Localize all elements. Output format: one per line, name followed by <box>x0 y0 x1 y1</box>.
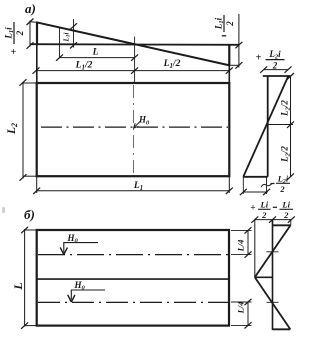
small dimension L1i extension line <box>59 28 61 58</box>
zigzag diagonal 1 <box>255 225 291 277</box>
label L/4 upper rotated <box>236 240 246 253</box>
horizontal centreline of panel a <box>41 126 228 128</box>
svg-text:L2/2: L2/2 <box>280 146 292 163</box>
label -L2i/2 <box>271 174 291 194</box>
svg-text:2: 2 <box>261 210 267 220</box>
extension left vertical down to panel <box>36 45 38 83</box>
right diagram bottom edge <box>243 176 267 178</box>
svg-text:2: 2 <box>15 30 25 36</box>
svg-text:2: 2 <box>225 21 235 27</box>
zigzag top edge <box>273 224 291 226</box>
zigzag right extension <box>290 220 292 226</box>
right diagram top edge <box>263 75 291 77</box>
svg-text:+: + <box>256 53 262 64</box>
label +L1i/2 rotated left <box>4 22 26 58</box>
svg-text:L1i: L1i <box>4 27 16 40</box>
panel rectangle b <box>37 230 229 326</box>
svg-text:Li: Li <box>281 200 290 210</box>
zigzag vertical axis <box>272 220 274 330</box>
panel rectangle a <box>37 83 230 176</box>
dimension line right of diagram a <box>235 14 242 69</box>
zigzag bottom edge <box>273 328 291 330</box>
svg-text:L1/2: L1/2 <box>75 61 93 72</box>
svg-text:L1i: L1i <box>63 32 72 42</box>
right extension lines of panel b <box>231 230 252 325</box>
label +L2i/2 top of right diagram <box>256 49 285 71</box>
svg-text:L/4: L/4 <box>236 240 246 253</box>
label L2/2 upper rotated <box>280 100 292 117</box>
label +Li/2 - Li/2 <box>250 200 293 220</box>
zigzag left vertical line <box>254 220 256 278</box>
dimension line L <box>56 54 138 60</box>
svg-text:L2: L2 <box>6 123 19 135</box>
zigzag middle horizontal <box>255 276 273 278</box>
label L1i rotated small <box>63 32 72 42</box>
zigzag diagonal 2 <box>255 277 290 329</box>
diagram a right vertical edge <box>228 44 230 65</box>
squiggle leader <box>261 184 272 188</box>
svg-text:L: L <box>92 48 99 58</box>
zigzag cross tick 2 <box>267 301 279 303</box>
small dimension L1i line with ticks <box>70 19 77 49</box>
middle solid line <box>37 278 229 280</box>
svg-text:L: L <box>11 282 25 290</box>
label L2/2 lower rotated <box>280 146 292 163</box>
dimension line L1/2 L1/2 <box>33 67 233 73</box>
vertical centreline of panel a <box>132 85 134 176</box>
dimension line L1 below panel a <box>33 188 233 194</box>
svg-text:L1: L1 <box>133 181 143 192</box>
svg-text:Li: Li <box>260 200 269 210</box>
leader arrow lower <box>68 290 105 302</box>
top dimension line of zigzag diagram <box>251 216 294 222</box>
svg-text:2: 2 <box>272 61 278 71</box>
extension right vertical down to panel <box>228 66 230 84</box>
leader arrow to centre <box>134 122 140 129</box>
zigzag cross tick 1 <box>267 251 279 253</box>
label -L1i/2 rotated right <box>214 15 236 36</box>
svg-text:H0: H0 <box>138 115 150 127</box>
quarter centreline 2 dash-dot <box>38 301 228 303</box>
bottom dimension line of right diagram <box>240 177 270 195</box>
short horizontal at right end bottom <box>229 64 239 66</box>
svg-text:L2i: L2i <box>268 49 281 61</box>
svg-text:L1/2: L1/2 <box>163 59 181 70</box>
right diagram middle tick line <box>268 124 293 126</box>
svg-text:а): а) <box>25 1 36 16</box>
dimension line left of diagram a <box>27 19 34 49</box>
svg-text:2: 2 <box>279 184 285 194</box>
right diagram side dimension line <box>287 73 294 180</box>
leader arrow upper <box>60 243 98 255</box>
right diagram diagonal <box>243 76 288 177</box>
dimension line L/4 upper <box>245 227 252 258</box>
quarter centreline 1 dash-dot <box>38 254 228 256</box>
top dimension line of right diagram <box>260 66 291 72</box>
svg-text:+: + <box>11 47 17 58</box>
dimension line L2 left of panel a <box>20 79 27 181</box>
label L2 rotated <box>6 123 19 135</box>
svg-text:+: + <box>250 203 255 213</box>
right diagram vertical axis <box>267 76 269 177</box>
dimension line L b left <box>21 227 28 329</box>
label L/4 lower rotated <box>236 302 246 315</box>
svg-text:L1i: L1i <box>214 17 226 30</box>
dimension line L/4 lower <box>245 299 252 329</box>
svg-text:L/4: L/4 <box>236 302 246 315</box>
svg-text:L2/2: L2/2 <box>280 100 292 117</box>
diagram a zero baseline <box>31 43 240 46</box>
bottom corner extensions to L1 dim line <box>36 176 38 193</box>
svg-text:2: 2 <box>283 210 289 220</box>
diagram a sloped top line <box>37 22 230 65</box>
diagram a left vertical edge <box>36 22 38 45</box>
centre extension line of diagram a <box>134 37 136 84</box>
label L rotated <box>11 282 25 290</box>
b edge extensions to left dim line <box>24 229 37 231</box>
top edge extensions to left dim line <box>23 82 37 84</box>
scan speck left margin <box>2 207 5 213</box>
svg-text:б): б) <box>24 207 35 222</box>
top-left corner extension of sloped line <box>30 21 38 24</box>
